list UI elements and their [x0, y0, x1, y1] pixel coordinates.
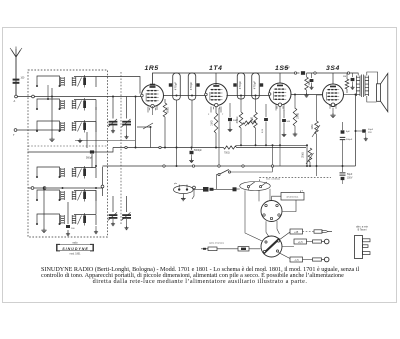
svg-text:1R5: 1R5: [145, 65, 159, 72]
ground coil box bottom b: [94, 226, 98, 234]
capacitor C9: [262, 104, 268, 146]
trimmer arrow V1: [137, 123, 153, 129]
caption text: [41, 267, 359, 285]
capacitor C-T2a: [233, 83, 236, 86]
resistor R1: [163, 99, 169, 149]
terminal A: [14, 95, 18, 103]
svg-text:B Taroni: B Taroni: [358, 229, 367, 232]
box +1.5V: [294, 239, 313, 244]
ground coil box top: [49, 88, 54, 142]
label spina e banana: [209, 243, 225, 245]
coil L4: [36, 166, 96, 179]
battery plug blobs: [203, 187, 240, 192]
svg-text:500pF: 500pF: [284, 68, 291, 70]
coil L6: [36, 213, 96, 226]
plug +45V: [314, 230, 332, 233]
capacitor C-5000: [189, 147, 202, 163]
label 3S4: [326, 65, 340, 72]
IF transformer T2 can b: [252, 73, 260, 99]
wire V2 pins: [208, 107, 224, 117]
capacitor C-osc 160pF: [66, 202, 76, 236]
wire tuning link: [113, 123, 151, 148]
wire can2 drops: [241, 97, 256, 113]
svg-text:10MΩ: 10MΩ: [298, 113, 300, 119]
wire oval to sockets: [245, 188, 270, 241]
svg-text:25kΩ: 25kΩ: [303, 152, 305, 158]
socket J1: [261, 201, 282, 222]
svg-text:+: +: [302, 190, 304, 193]
capacitor C13: [350, 73, 354, 89]
wire rail A: [28, 146, 307, 152]
svg-text:470pF: 470pF: [189, 82, 193, 91]
svg-text:500: 500: [287, 121, 291, 123]
capacitor C-T2b: [260, 83, 263, 86]
svg-text:1T4: 1T4: [209, 65, 223, 72]
resistor R8: [343, 73, 349, 93]
svg-text:500pF: 500pF: [346, 139, 353, 141]
svg-text:160: 160: [71, 228, 75, 230]
wire coil right drops: [95, 107, 97, 214]
plug J2: [261, 236, 282, 257]
svg-text:+1,5: +1,5: [298, 241, 303, 244]
wire rail B: [103, 108, 356, 167]
svg-text:50μF: 50μF: [368, 129, 374, 131]
svg-text:2: 2: [208, 114, 210, 116]
svg-text:470kΩ: 470kΩ: [237, 116, 239, 123]
potentiometer P2 tone: [303, 148, 314, 167]
wire box to socket: [272, 196, 296, 211]
plug +1.5V: [313, 239, 330, 244]
wire plate to T3: [343, 94, 355, 96]
speaker LS: [377, 73, 388, 111]
wire coil links top: [47, 77, 140, 101]
resistor R2: [211, 106, 218, 149]
logo SINUDYNE: [57, 242, 94, 256]
terminal T: [13, 129, 17, 137]
capacitor C-pad 560pF: [75, 132, 135, 168]
wire B+ drop: [355, 94, 357, 167]
changeover oval: [240, 177, 280, 190]
wire terra: [17, 129, 61, 131]
switch S1: [217, 167, 273, 190]
node test point: [192, 186, 195, 199]
svg-text:2MΩ: 2MΩ: [211, 120, 214, 125]
svg-text:100: 100: [21, 78, 26, 80]
box -1.5V: [290, 257, 313, 262]
svg-text:+45: +45: [294, 231, 299, 234]
svg-text:8μF: 8μF: [346, 131, 350, 133]
wire rail C: [236, 144, 308, 167]
svg-text:700Ω: 700Ω: [224, 153, 230, 155]
mech link dashed: [260, 177, 332, 181]
svg-text:470pF: 470pF: [253, 81, 257, 90]
capacitor C14 50uF: [355, 129, 374, 141]
wire J2 leads: [279, 232, 295, 259]
svg-text:3S4: 3S4: [326, 65, 340, 72]
capacitor C10: [282, 110, 291, 137]
dashed divider 1: [28, 145, 108, 147]
label 1R5: [145, 65, 159, 72]
potentiometer P1 volume: [312, 95, 323, 176]
svg-text:S I N U D Y N E: S I N U D Y N E: [62, 247, 88, 251]
svg-text:5M: 5M: [343, 76, 346, 78]
coil L1: [36, 75, 96, 88]
svg-text:T: T: [13, 133, 15, 137]
capacitor C-coup 500pF: [284, 68, 306, 75]
IF transformer T1 can b: [188, 73, 196, 100]
variable capacitor CV4: [122, 196, 132, 230]
wire top rail: [153, 73, 359, 85]
coil L2: [36, 98, 96, 111]
tube V2 1T4: [205, 84, 228, 110]
battery jack: [174, 183, 204, 201]
capacitor C-T1b: [196, 83, 199, 86]
svg-text:radio: radio: [72, 242, 78, 245]
svg-text:spina e banana: spina e banana: [209, 243, 225, 245]
svg-text:5000pF: 5000pF: [194, 150, 202, 152]
capacitor C11: [309, 73, 313, 89]
capacitor C15 8uF: [340, 122, 353, 166]
svg-text:1MΩ: 1MΩ: [312, 124, 314, 129]
label 1S5: [275, 65, 289, 72]
svg-text:A: A: [14, 99, 16, 103]
node CV junction: [101, 167, 113, 212]
wire right box: [355, 143, 357, 145]
fuse box B: [225, 247, 261, 251]
variable capacitor CV1: [108, 96, 117, 133]
battery pack: [355, 236, 371, 259]
tube V1 1R5: [141, 84, 164, 111]
capacitor C16 50uF 150V: [340, 166, 353, 184]
plug P-banana: [201, 247, 225, 251]
wire V1 grid drop: [135, 96, 137, 149]
resistor R4: [251, 112, 257, 146]
resistor R5: [293, 94, 300, 137]
variable capacitor CV2: [122, 97, 132, 139]
svg-text:interr. combinato: interr. combinato: [266, 177, 280, 180]
svg-text:mod. 1801: mod. 1801: [70, 254, 82, 256]
wire plate links: [163, 95, 323, 97]
label battery pack: [356, 225, 368, 231]
dashed divider 2: [120, 72, 122, 225]
page border frame: [3, 28, 397, 303]
svg-text:150V: 150V: [347, 178, 353, 180]
wire can1 drops: [176, 100, 193, 167]
IF transformer T2 can a: [237, 73, 245, 99]
trimmer R9: [243, 119, 256, 126]
svg-text:pile: pile: [174, 183, 178, 185]
wire V1 cathode: [148, 106, 157, 115]
node rail j2: [314, 72, 316, 74]
coil L5: [36, 189, 96, 202]
label 1T4: [209, 65, 223, 72]
wire T3 to speaker: [367, 72, 378, 102]
IF transformer T1 can a: [173, 73, 181, 100]
resistor R6 1M: [304, 73, 311, 97]
wire V3 pins: [276, 105, 284, 167]
svg-text:80kΩ: 80kΩ: [167, 107, 170, 113]
svg-text:50μF: 50μF: [347, 174, 353, 176]
node rail j1: [294, 72, 296, 74]
wire osc bus: [28, 187, 103, 190]
tube V3 1S5: [268, 83, 291, 109]
variable capacitor CV3: [108, 196, 117, 226]
svg-text:0,01: 0,01: [262, 128, 264, 133]
wire socket down: [266, 221, 280, 237]
resistor R3: [237, 112, 243, 146]
svg-text:25V: 25V: [368, 132, 372, 134]
resistor R7 series: [224, 146, 237, 155]
svg-text:7: 7: [222, 114, 224, 116]
ground coil box bottom a: [41, 187, 46, 233]
ground V4: [329, 105, 337, 118]
capacitor C8: [228, 103, 239, 132]
output transformer T3: [356, 73, 368, 97]
capacitor C-ant: [13, 78, 25, 84]
svg-text:−1,5: −1,5: [294, 259, 299, 262]
svg-text:470pF: 470pF: [238, 81, 242, 90]
coil L3: [36, 120, 96, 133]
wire antenna bus: [17, 95, 142, 98]
wire rail drops: [177, 72, 334, 85]
tube V4 3S4: [323, 84, 344, 109]
svg-text:470pF: 470pF: [174, 82, 178, 91]
box +45V: [290, 229, 314, 234]
svg-text:560pF: 560pF: [86, 158, 93, 160]
node rail j3: [347, 72, 349, 74]
plug -1.5V: [313, 257, 330, 262]
capacitor C-T1a: [169, 83, 172, 86]
box all'alimentatore: [281, 190, 304, 201]
antenna: [10, 47, 22, 97]
svg-text:all’alimentat.: all’alimentat.: [286, 196, 299, 199]
coil box dashed border: [28, 70, 108, 237]
